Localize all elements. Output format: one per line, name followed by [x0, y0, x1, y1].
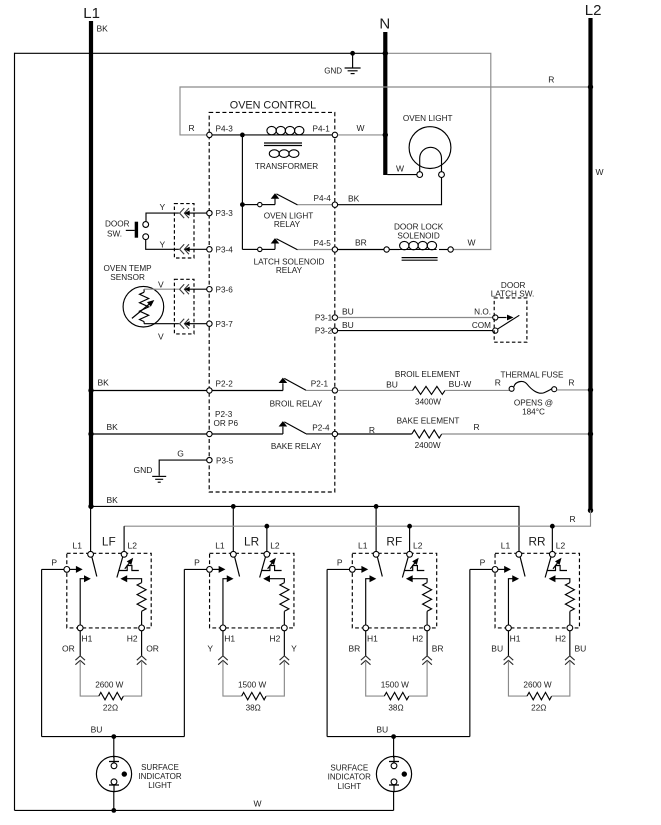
svg-text:BU: BU	[491, 643, 503, 653]
terminal RR L1	[516, 551, 522, 557]
svg-text:22Ω: 22Ω	[103, 704, 118, 713]
switch door switch	[105, 220, 149, 240]
junction RR L2 tap	[550, 524, 555, 529]
svg-text:SURFACE: SURFACE	[141, 763, 179, 772]
connector box P3-3/P3-4	[174, 204, 194, 258]
svg-text:H1: H1	[81, 634, 92, 644]
pin P4-3	[207, 125, 234, 138]
svg-text:OPENS @: OPENS @	[514, 398, 553, 407]
svg-text:184°C: 184°C	[522, 408, 545, 417]
connector RF H1 chevrons	[361, 656, 371, 665]
oven control dashed enclosure	[209, 112, 335, 492]
wire LR L2 drop	[266, 526, 268, 551]
lamp surface indicator light right	[376, 756, 411, 791]
switch LF surface unit	[67, 553, 151, 628]
switch LF P arrow	[70, 566, 83, 573]
switch RR P arrow	[498, 566, 511, 573]
terminal LR L1	[230, 551, 236, 557]
svg-text:H2: H2	[127, 634, 138, 644]
svg-text:THERMAL FUSE: THERMAL FUSE	[501, 370, 564, 379]
svg-text:BU: BU	[376, 725, 388, 735]
svg-text:38Ω: 38Ω	[388, 704, 403, 713]
resistor RR internal	[549, 575, 575, 625]
svg-text:N: N	[379, 16, 390, 33]
label OVEN CONTROL	[230, 100, 316, 112]
connector LR H2 chevrons	[280, 656, 290, 665]
pin P3-3	[207, 209, 234, 218]
svg-text:BU: BU	[386, 380, 398, 390]
wire BK surface bus	[91, 506, 519, 551]
svg-text:P2-4: P2-4	[312, 423, 330, 432]
svg-text:DOOR LOCK: DOOR LOCK	[394, 222, 444, 231]
svg-text:SENSOR: SENSOR	[110, 273, 145, 282]
junction N at P4-1 wire	[383, 132, 388, 137]
svg-text:P4-1: P4-1	[313, 125, 331, 134]
svg-text:SURFACE: SURFACE	[330, 763, 368, 772]
wire right light drop	[393, 737, 395, 758]
svg-text:BU-W: BU-W	[449, 379, 472, 389]
svg-text:BU: BU	[342, 307, 354, 317]
svg-text:OVEN CONTROL: OVEN CONTROL	[230, 100, 316, 112]
wire RF H2 lead	[426, 631, 428, 656]
svg-text:DOOR: DOOR	[105, 220, 130, 229]
junction N top	[383, 51, 388, 56]
junction P4-3 bus	[240, 133, 245, 138]
wire RR H2 lead	[569, 631, 571, 656]
sensor oven temp sensor	[123, 286, 164, 327]
pin P4-4	[314, 194, 338, 207]
relay oven light relay	[242, 193, 313, 229]
wire door switch to P3-4	[146, 239, 179, 249]
pin P3-5	[207, 456, 234, 465]
switch RR L2 blade	[545, 557, 551, 578]
svg-text:2600 W: 2600 W	[95, 680, 123, 689]
label surface indicator light left	[138, 763, 181, 790]
resistor broil element 3400W	[395, 370, 460, 407]
wire BU P3-1 to N.O.	[338, 307, 493, 318]
svg-text:H2: H2	[412, 634, 423, 644]
junction L2 broil	[588, 387, 593, 392]
resistor RR element 2600 W	[508, 661, 569, 713]
wire P4-3 to P4-1	[209, 134, 335, 136]
svg-text:RELAY: RELAY	[276, 266, 303, 275]
svg-text:V: V	[158, 332, 164, 342]
junction left light tap	[111, 734, 116, 739]
svg-text:GND: GND	[134, 465, 153, 475]
svg-text:BK: BK	[107, 422, 119, 432]
connector chevrons P3-7	[180, 319, 207, 329]
solenoid door lock solenoid	[389, 222, 448, 260]
terminal RF L1	[373, 551, 379, 557]
wire G P3-5 to ground	[159, 449, 207, 476]
label oven temp sensor	[104, 264, 153, 282]
wire LR pilot drop	[183, 569, 185, 736]
svg-text:2600 W: 2600 W	[523, 680, 551, 689]
resistor LF element 2600 W	[80, 661, 141, 713]
switch LF L2 blade	[117, 557, 123, 578]
resistor LR internal	[263, 575, 289, 625]
wire BK P4-4 to oven light	[338, 178, 442, 205]
svg-text:BK: BK	[348, 194, 360, 204]
enclosure door latch switch	[494, 298, 527, 342]
svg-text:OR: OR	[146, 643, 159, 653]
svg-text:INDICATOR: INDICATOR	[328, 773, 371, 782]
terminal LF L2	[121, 551, 127, 557]
terminal LF H2	[127, 625, 145, 644]
connector box P3-6/P3-7	[174, 279, 194, 334]
connector chevrons P3-4	[180, 244, 207, 254]
junction L1 bottom	[88, 504, 93, 509]
label RR wire colors	[491, 643, 586, 653]
svg-text:L2: L2	[413, 541, 423, 551]
svg-text:1500 W: 1500 W	[238, 680, 266, 689]
svg-text:N.O.: N.O.	[474, 308, 491, 317]
label LR L1 L2	[215, 541, 280, 551]
wire RR H1 internal	[508, 575, 519, 625]
terminal LF L1	[88, 551, 94, 557]
svg-text:BR: BR	[432, 643, 444, 653]
svg-text:L2: L2	[270, 541, 280, 551]
svg-text:W: W	[253, 799, 261, 809]
svg-text:OR: OR	[62, 643, 75, 653]
wire R surface bus	[124, 510, 590, 551]
wire thermal fuse to L2	[557, 378, 591, 390]
svg-text:P2-1: P2-1	[311, 380, 329, 389]
svg-text:R: R	[548, 74, 554, 84]
pin P3-7	[207, 320, 234, 329]
label LF wire colors	[62, 643, 159, 653]
svg-text:LR: LR	[244, 534, 259, 548]
resistor RF internal	[406, 575, 432, 625]
svg-text:OR P6: OR P6	[214, 419, 239, 428]
junction RF L2 tap	[407, 524, 412, 529]
pin P2-1	[311, 380, 338, 393]
wire left light drop	[113, 737, 115, 758]
label R at P4-3	[189, 123, 195, 133]
junction L1 bake	[88, 431, 93, 436]
svg-text:BK: BK	[97, 24, 109, 34]
svg-text:L1: L1	[215, 541, 225, 551]
wire BK L1 to P2-2	[91, 377, 207, 390]
wire neutral to door lock solenoid	[386, 53, 491, 249]
wire LF H1 lead	[79, 631, 81, 656]
svg-text:H1: H1	[367, 634, 378, 644]
svg-text:P: P	[194, 557, 200, 567]
svg-text:W: W	[396, 164, 404, 174]
pin P3-1	[315, 314, 338, 323]
wire RF L2 drop	[409, 526, 411, 551]
wire broil blade to P2-1	[306, 389, 335, 391]
switch RF L2 blade	[402, 557, 408, 578]
terminal LR H1	[220, 625, 235, 644]
junction L1 broil	[88, 388, 93, 393]
wire BU bus left	[42, 725, 185, 737]
ground GND bottom	[134, 465, 167, 482]
connector LF H1 chevrons	[75, 656, 85, 665]
wire LR L1 drop	[232, 506, 234, 551]
svg-text:L1: L1	[358, 541, 368, 551]
node L1 (hot leg 1)	[83, 5, 108, 508]
wire BU P3-2 to COM	[338, 320, 493, 331]
connector RF H2 chevrons	[422, 656, 432, 665]
node L2 (hot leg 2)	[585, 2, 604, 511]
terminal LF H1	[77, 625, 92, 644]
svg-text:LIGHT: LIGHT	[148, 781, 172, 790]
terminal solenoid right	[448, 238, 476, 253]
svg-text:P3-1: P3-1	[315, 314, 333, 323]
wire relay bus	[241, 135, 243, 250]
svg-text:L1: L1	[501, 541, 511, 551]
switch LR L2 blade	[260, 557, 266, 578]
resistor bake element 2400W	[397, 417, 460, 451]
wire LF L1 drop	[90, 506, 92, 551]
lamp oven light	[403, 114, 453, 178]
svg-text:P: P	[480, 557, 486, 567]
svg-text:GND: GND	[324, 67, 342, 76]
switch LR cycling contact symbol	[262, 558, 282, 571]
label RR	[528, 534, 545, 548]
svg-text:P: P	[337, 557, 343, 567]
terminal LR L2	[264, 551, 270, 557]
connector RR H2 chevrons	[565, 656, 575, 665]
svg-text:P2-2: P2-2	[216, 380, 234, 389]
svg-text:P4-4: P4-4	[314, 194, 332, 203]
svg-text:SOLENOID: SOLENOID	[397, 232, 439, 241]
svg-text:L2: L2	[585, 2, 602, 19]
svg-text:H1: H1	[224, 634, 235, 644]
terminal RR L2	[549, 551, 555, 557]
switch LF L1 blade	[92, 557, 97, 577]
wire door switch to P3-3	[146, 202, 179, 221]
transformer T1	[255, 126, 318, 171]
junction oven light relay	[240, 202, 245, 207]
svg-text:BR: BR	[355, 238, 367, 248]
wire RF P feed	[327, 557, 349, 569]
svg-text:LIGHT: LIGHT	[338, 782, 362, 791]
connector LR H1 chevrons	[218, 656, 228, 665]
connector LF H2 chevrons	[137, 656, 147, 665]
wire BR P4-5 to solenoid	[338, 238, 385, 250]
pin P3-4	[207, 245, 234, 254]
svg-text:R: R	[568, 378, 574, 388]
switch RR surface unit	[495, 553, 579, 628]
wire RR H1 lead	[507, 631, 509, 656]
junction right light tap	[391, 734, 396, 739]
terminal LF P	[64, 567, 70, 573]
wire P4-1 to N	[338, 134, 386, 136]
wire W neutral to oven light	[387, 164, 416, 175]
svg-text:P3-4: P3-4	[216, 245, 234, 254]
svg-text:BROIL ELEMENT: BROIL ELEMENT	[395, 370, 460, 379]
terminal RR H2	[555, 625, 573, 644]
svg-text:H2: H2	[269, 634, 280, 644]
svg-text:BAKE ELEMENT: BAKE ELEMENT	[397, 417, 460, 426]
wire LF H2 lead	[141, 631, 143, 656]
svg-text:SW.: SW.	[107, 229, 122, 238]
svg-text:1500 W: 1500 W	[381, 680, 409, 689]
wire BU bus right	[327, 725, 470, 737]
terminal LR P	[207, 567, 213, 573]
node N (neutral)	[379, 16, 390, 176]
label R near L2	[548, 74, 554, 84]
pin P2-3	[207, 410, 239, 437]
switch RF L1 blade	[377, 557, 382, 577]
svg-text:G: G	[177, 449, 184, 459]
svg-text:L2: L2	[556, 541, 566, 551]
svg-text:BU: BU	[342, 320, 354, 330]
svg-text:W: W	[357, 123, 365, 133]
terminal RF H1	[363, 625, 378, 644]
wire LR H1 lead	[222, 631, 224, 656]
terminal RR P	[492, 567, 498, 573]
wire R net L2 to oven control	[180, 87, 591, 135]
label BU-W	[449, 379, 472, 389]
svg-text:TRANSFORMER: TRANSFORMER	[255, 162, 318, 171]
switch door latch switch	[472, 308, 519, 334]
resistor RF element 1500 W	[366, 661, 427, 713]
label LR wire colors	[207, 643, 297, 653]
wire RR L2 drop	[551, 526, 553, 551]
relay latch solenoid relay	[242, 238, 324, 275]
wire LF P feed	[42, 557, 64, 569]
svg-text:P: P	[51, 557, 57, 567]
lamp surface indicator light left	[96, 756, 131, 791]
switch LR surface unit	[210, 553, 294, 628]
svg-text:BR: BR	[348, 643, 360, 653]
svg-text:BROIL RELAY: BROIL RELAY	[270, 400, 323, 409]
svg-text:Y: Y	[160, 202, 166, 212]
wire top neutral run	[15, 52, 387, 54]
relay bake relay	[212, 421, 333, 451]
terminal RF P	[349, 567, 355, 573]
svg-text:BK: BK	[98, 377, 110, 387]
svg-text:BAKE RELAY: BAKE RELAY	[271, 442, 322, 451]
svg-text:BU: BU	[575, 643, 587, 653]
junction ground tap	[350, 51, 355, 56]
label RF	[386, 534, 402, 548]
svg-text:Y: Y	[160, 239, 166, 249]
pin P3-2	[315, 327, 338, 336]
switch LR P arrow	[212, 566, 225, 573]
svg-text:W: W	[596, 167, 604, 177]
switch RR cycling contact symbol	[547, 558, 567, 571]
wire relay blade to P4-5	[298, 249, 335, 251]
wire RF L1 drop	[375, 506, 377, 551]
svg-text:BU: BU	[91, 725, 103, 735]
wire BK L1 to P2-3	[91, 422, 207, 434]
svg-text:L1: L1	[73, 541, 83, 551]
wire sensor to P3-7	[144, 324, 179, 342]
svg-text:LATCH SW.: LATCH SW.	[491, 289, 535, 298]
svg-text:2400W: 2400W	[415, 441, 441, 450]
junction left light W	[111, 808, 116, 813]
label DOOR LATCH SW.	[491, 281, 535, 298]
svg-text:Y: Y	[291, 643, 297, 653]
wire left neutral loop	[14, 53, 16, 811]
wire RF H1 lead	[365, 631, 367, 656]
label LR	[244, 534, 259, 548]
svg-text:H1: H1	[510, 634, 521, 644]
junction R at L2	[588, 84, 593, 89]
svg-text:RF: RF	[386, 534, 402, 548]
svg-text:OVEN LIGHT: OVEN LIGHT	[403, 114, 453, 123]
junction L2 bake	[588, 431, 593, 436]
svg-text:LF: LF	[102, 534, 116, 548]
wire R P2-4 to bake element	[338, 425, 412, 435]
label LF L1 L2	[73, 541, 138, 551]
wire LR H1 internal	[223, 575, 234, 625]
label W at P4-1	[357, 123, 365, 133]
switch LR L1 blade	[235, 557, 240, 577]
svg-text:P4-3: P4-3	[216, 125, 234, 134]
pin P2-4	[312, 423, 337, 436]
switch LF cycling contact symbol	[119, 558, 139, 571]
resistor LF internal	[120, 575, 146, 625]
svg-text:OVEN TEMP: OVEN TEMP	[104, 264, 153, 273]
svg-text:P4-5: P4-5	[314, 239, 332, 248]
wire broil element to thermal fuse	[445, 378, 509, 391]
wire LF H1 internal	[80, 575, 91, 625]
wire RF pilot drop	[326, 569, 328, 736]
switch RF P arrow	[355, 566, 368, 573]
wire right light to W bus	[393, 792, 395, 811]
svg-text:INDICATOR: INDICATOR	[138, 772, 181, 781]
switch RF surface unit	[352, 553, 436, 628]
pin P2-2	[207, 380, 234, 394]
thermal fuse F1	[501, 370, 564, 416]
wire LR H2 lead	[283, 631, 285, 656]
terminal solenoid left	[384, 247, 389, 252]
wire LR P feed	[184, 557, 206, 569]
junction LR L1 tap	[231, 504, 236, 509]
label BK lower	[107, 495, 119, 505]
svg-text:BK: BK	[107, 495, 119, 505]
wire left light to W bus	[113, 792, 115, 811]
svg-text:COM: COM	[472, 321, 491, 330]
svg-text:L2: L2	[128, 541, 138, 551]
connector chevrons P3-6	[180, 284, 207, 294]
svg-text:L1: L1	[83, 5, 100, 22]
connector chevrons P3-3	[180, 208, 207, 218]
terminal RR H1	[506, 625, 521, 644]
pin P4-1	[313, 125, 338, 138]
wire RF H1 internal	[366, 575, 377, 625]
pin P3-6	[207, 285, 234, 294]
svg-text:P3-5: P3-5	[216, 456, 234, 465]
svg-text:RELAY: RELAY	[274, 220, 301, 229]
svg-text:P3-3: P3-3	[216, 209, 234, 218]
wire LF pilot drop	[41, 569, 43, 736]
wire relay blade to P4-4	[298, 204, 335, 206]
svg-text:P3-6: P3-6	[216, 285, 234, 294]
label RR L1 L2	[501, 541, 566, 551]
junction L2 bottom	[588, 508, 593, 513]
relay broil relay	[212, 378, 323, 409]
svg-text:R: R	[474, 422, 480, 432]
wire BU P2-1 to broil element	[338, 380, 413, 391]
connector RR H1 chevrons	[504, 656, 514, 665]
svg-text:22Ω: 22Ω	[531, 704, 546, 713]
svg-text:V: V	[158, 279, 164, 289]
label LF	[102, 534, 116, 548]
svg-text:Y: Y	[207, 643, 213, 653]
svg-text:P3-2: P3-2	[315, 327, 333, 336]
svg-text:W: W	[468, 238, 476, 248]
svg-text:3400W: 3400W	[415, 398, 441, 407]
wire sensor to P3-6	[144, 279, 179, 289]
wire RR pilot drop	[469, 569, 471, 736]
label RF wire colors	[348, 643, 443, 653]
